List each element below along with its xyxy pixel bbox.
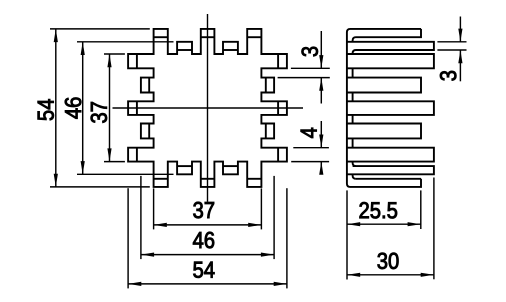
slot wall between fin 6 and fin 7 (352, 138, 354, 147)
heatsink front-view outline (castellated square body) (128, 29, 287, 187)
side view fin 3 (depth 30) (347, 54, 434, 68)
dimension 37 (left, vertical) (109, 54, 111, 162)
side view outer boundary (base face with rounded corners) (347, 29, 421, 187)
slot wall between fin 3 and fin 4 (352, 68, 354, 77)
fin-tip step lines, bottom edge tabs (154, 178, 168, 180)
centerline horizontal (front view) (113, 107, 304, 109)
side view fin 9 (bottom, depth 25.5) (356, 178, 421, 180)
slot wall between fin 4 and fin 5 (352, 93, 354, 102)
fin-tip step lines, top edge tabs (154, 36, 168, 38)
fillet at fin 9 root (353, 174, 356, 179)
side view fin 8 (depth 30) (347, 166, 434, 174)
side view fin 6 (depth 25.5) (347, 124, 421, 139)
dimension 25.5 (side view, horizontal) (347, 223, 421, 225)
dimension 30 (side view, horizontal) (347, 274, 434, 276)
dimension 54 (bottom, horizontal) (128, 283, 287, 285)
dimension 3 (fin thickness, right of side view) (437, 41, 466, 43)
slot wall between fin 5 and fin 6 (352, 115, 354, 124)
dimension 37 (bottom, horizontal) (154, 224, 262, 226)
dimension 46 (bottom, horizontal) (141, 254, 274, 256)
side view fin 2 (depth 30) (347, 42, 434, 54)
centerline vertical (front view) (207, 14, 209, 202)
fin-tip step lines, right edge tabs (277, 54, 279, 68)
side view fin 5 (depth 30) (347, 101, 434, 115)
side view fin 7 (depth 30) (347, 148, 434, 162)
dimension 3 (fin gap, right of front view) (291, 67, 330, 69)
side view fin 4 (depth 25.5) (347, 78, 421, 93)
dimension 54 (left, vertical) (55, 29, 57, 187)
side view fin 1 (top, depth 25.5) (353, 29, 421, 42)
fin-tip step lines, left edge tabs (136, 54, 138, 68)
fillet at fin 8 root (353, 162, 356, 167)
dimension 46 (left, vertical) (82, 42, 84, 175)
dimension 4 (fin width, right of front view) (293, 147, 329, 149)
